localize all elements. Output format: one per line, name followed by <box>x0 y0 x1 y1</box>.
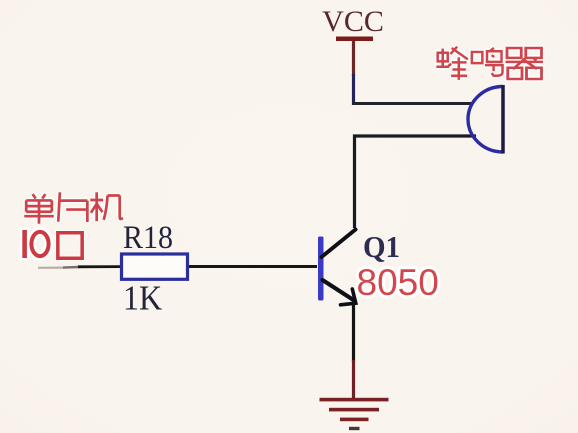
svg-text:Q1: Q1 <box>363 230 400 264</box>
svg-text:8050: 8050 <box>357 262 439 303</box>
svg-text:VCC: VCC <box>322 5 384 38</box>
svg-text:R18: R18 <box>123 219 173 256</box>
svg-text:1K: 1K <box>123 279 162 317</box>
